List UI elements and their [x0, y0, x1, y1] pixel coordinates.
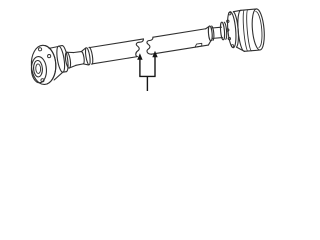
clamp scallop nub 5 — [228, 12, 231, 15]
cup rib 1 — [242, 10, 248, 51]
tube end cone top — [205, 26, 209, 29]
tube end swage front arc — [208, 26, 213, 41]
hub ellipse — [33, 60, 43, 77]
boot clamp ring back arc — [233, 11, 239, 47]
clamp scallop nub 2 — [226, 29, 229, 32]
arrow right head — [152, 51, 157, 58]
right collar front arc — [220, 22, 225, 40]
cup left edge arc — [236, 10, 244, 51]
bolt hole right — [47, 54, 50, 57]
right neck bottom line — [213, 37, 223, 40]
hub inner ellipse — [36, 64, 41, 74]
collar bottom line — [63, 71, 66, 74]
cone bottom — [83, 63, 88, 66]
cup end ellipse — [251, 8, 266, 50]
bolt hole bottom — [41, 79, 44, 82]
collar ring front arc — [55, 46, 66, 73]
collar ring back arc — [62, 45, 69, 72]
neck bottom line — [76, 64, 83, 65]
arrow stem — [146, 76, 148, 91]
swage ring front arc — [85, 47, 91, 65]
yoke top contour — [49, 47, 58, 49]
left tube bottom line — [92, 57, 138, 64]
cup end inner arc — [256, 11, 264, 47]
flange back rim arc — [45, 45, 57, 84]
bolt hole top — [38, 48, 41, 51]
cup top line — [241, 9, 257, 10]
boot clamp ring front scalloped — [226, 11, 237, 48]
swage ring back arc — [89, 47, 94, 64]
cone top — [81, 48, 86, 52]
flange front face — [31, 56, 47, 83]
cup bottom line — [244, 50, 260, 51]
ujoint bottom line — [69, 65, 76, 68]
arrow right shaft — [154, 57, 156, 77]
clamp scallop nub 1 — [227, 20, 230, 23]
cup rib 2 — [245, 10, 251, 51]
ujoint top line — [67, 51, 74, 53]
arrow bar — [139, 75, 155, 77]
break squiggle right — [147, 37, 153, 54]
clamp scallop nub 3 — [228, 37, 231, 40]
tube end swage back arc — [212, 26, 215, 40]
tube end cone bottom — [208, 41, 212, 45]
right neck top line — [212, 26, 222, 29]
cup left shoulder bottom — [236, 46, 244, 52]
flange yoke outer rim — [30, 45, 56, 85]
right tube top line — [153, 29, 206, 37]
break squiggle left — [136, 39, 144, 57]
cup left shoulder top — [233, 10, 241, 11]
yoke bottom contour — [53, 73, 63, 80]
left tube top line — [89, 39, 143, 48]
neck end arc — [81, 51, 85, 64]
right tube bottom line — [151, 45, 208, 54]
clamp scallop nub 4 — [231, 45, 234, 48]
balance weight — [195, 43, 203, 47]
right collar back arc — [224, 22, 227, 39]
neck top line — [74, 51, 81, 52]
arrow left shaft — [139, 59, 141, 76]
ujoint cup arc — [64, 52, 71, 69]
collar top line — [59, 45, 62, 48]
arrow left head — [137, 53, 142, 60]
